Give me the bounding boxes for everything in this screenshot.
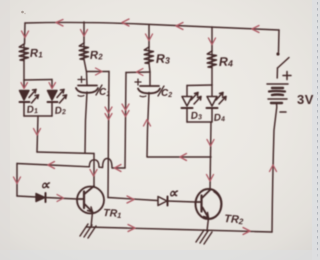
arrow down into D1 (21, 83, 28, 89)
arrow down on R2 lead (81, 30, 88, 37)
wire: battery negative lead down right side (272, 103, 277, 232)
wire: C1 bottom lead down to node A run (85, 92, 87, 153)
diode D5 (OC, into TR1 base) (36, 193, 46, 202)
plus sign of C1 (78, 77, 85, 83)
diode D6 (OC, into TR2 base) (158, 197, 168, 206)
arrow left on branch (137, 69, 144, 76)
plus sign of C2 (135, 79, 141, 85)
arrow down on R3 lead (146, 34, 153, 41)
arrow right on rail (left) (128, 225, 135, 232)
wire: V2 run to TR2 base with diode (108, 198, 195, 203)
arrow right on TR2 base wire (127, 196, 134, 203)
ground hatch at TR2 emitter (196, 230, 212, 244)
arrow left on L1 right section (115, 165, 122, 172)
arrow down into D2 (49, 83, 56, 89)
battery BT1 plus sign (283, 72, 291, 80)
wire: R1 top lead (24, 23, 27, 44)
wire: D3/D4 bottom bus (187, 121, 211, 123)
resistor R1 (19, 44, 28, 61)
wire: D1/D2 top bus with two drops (24, 80, 52, 89)
label C2 with slash (158, 86, 164, 96)
wire: TR2 emitter to bottom rail (207, 218, 209, 231)
wire: junction branch left to V3 (126, 71, 150, 74)
ground hatch at TR1 emitter (80, 224, 96, 238)
wire: R4 top lead (211, 27, 213, 51)
arrow down lower on collector drop (207, 175, 214, 182)
wire: D1/D2 bottom bus (24, 115, 52, 117)
wire: top positive supply rail (25, 22, 279, 30)
double arrow down on V3 (122, 104, 129, 117)
wire: R4 bottom to D3/D4 top bus (211, 68, 213, 86)
arrow left on L1 left section (48, 162, 55, 169)
wire: TR1 collector drop (93, 154, 95, 187)
transistor TR2 (195, 189, 222, 219)
arrow up on C2 drop (144, 120, 151, 127)
LED D1 (20, 90, 39, 117)
wire: V2 vertical (R2 node down to TR2 base net) (108, 72, 109, 198)
wire: D3/D4 top bus with two drops (187, 85, 212, 96)
arrow down on L1 left vertical (14, 177, 21, 184)
wire: V3 vertical (R3 node down to cross wire L1) (125, 73, 126, 169)
wire: C2 bottom lead down and right to TR2 collector net (147, 93, 211, 158)
wire: junction branch right to V2 (87, 71, 110, 73)
arrows on top rail (current direction, leftward) (56, 19, 259, 33)
label C1 with slash (96, 85, 102, 95)
arrow down upper on collector drop (207, 140, 214, 147)
resistor R4 (207, 51, 216, 68)
arrow right after D5 (57, 195, 64, 202)
battery BT1 minus sign (280, 111, 286, 113)
wire: R3 bottom to junction above C2 (149, 64, 150, 87)
arrow right on branch (96, 68, 103, 75)
wire: TR1 emitter to bottom rail (91, 212, 93, 227)
wire: R1 bottom lead to D1/D2 top bus (23, 61, 25, 81)
arrow left on horizontal run (180, 154, 187, 161)
svg-text:3V: 3V (297, 92, 314, 107)
switch S1 (open) (276, 52, 289, 78)
LED D3 (182, 93, 202, 123)
capacitor C1 (polarized) (76, 86, 98, 97)
wire: top rail right corner down to switch (278, 30, 281, 52)
resistor R2 (79, 43, 88, 60)
wire: D1/D2 bottom to node A (TR1 collector net) (37, 116, 38, 152)
battery BT1 (3V multi-cell) (267, 84, 288, 103)
wire: R3 top lead (148, 25, 150, 47)
transistor TR1 (77, 186, 104, 214)
arrow down on R4 lead (209, 38, 216, 45)
wire: R2 top lead (83, 22, 85, 43)
arrow right on rail (right) (243, 228, 250, 235)
arrow up on right vertical (270, 165, 277, 172)
LED D4 (207, 93, 227, 123)
wire: node A horizontal run to TR1 collector corner (37, 152, 94, 154)
arrow down on TR1 collector (90, 170, 97, 177)
arrow down on that drop (34, 129, 41, 136)
wire: D5 to TR1 base lead (46, 198, 78, 200)
LED D2 (48, 90, 67, 117)
resistor R3 (144, 47, 153, 64)
wire: cross wire L1 from V3 to TR1 base (with two hops) (17, 159, 125, 198)
wire: TR2 collector drop (210, 122, 211, 190)
wire: bottom negative rail (86, 227, 272, 232)
capacitor C2 (polarized) (138, 86, 160, 97)
wire: R2 bottom to junction above C1 (84, 60, 87, 86)
double arrow down on V2 (105, 107, 112, 120)
arrow down on R1 lead (22, 31, 29, 38)
